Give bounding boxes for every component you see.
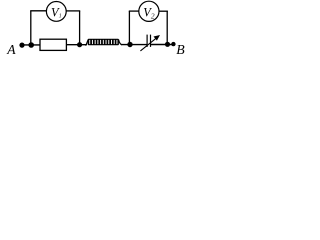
junction dot V1 left tap (28, 42, 34, 48)
svg-text:B: B (176, 42, 185, 57)
inductor L (tightly wound coil) (85, 39, 122, 46)
junction dot terminal A (19, 43, 24, 48)
svg-text:1: 1 (59, 13, 62, 20)
wire segment capacitor to B (151, 44, 174, 46)
capacitor C (variable, with arrow) (140, 35, 160, 51)
svg-text:A: A (6, 42, 16, 57)
wire V2 top right horizontal (159, 10, 168, 12)
wire segment coil to capacitor (121, 44, 147, 46)
junction dot V1 right tap (77, 42, 82, 47)
wire V1 top right horizontal (66, 10, 80, 12)
wire V1 left vertical (30, 11, 32, 45)
voltmeter V1 (46, 2, 66, 22)
resistor R (box) (40, 39, 66, 50)
wire main left segment A to resistor (20, 44, 41, 46)
junction dot terminal B (171, 42, 175, 46)
wire V1 top left horizontal (30, 10, 47, 12)
voltmeter V2 (139, 1, 159, 21)
wire segment resistor to coil (67, 44, 88, 46)
wire V2 top left horizontal (129, 10, 139, 12)
junction dot V2 right tap (165, 42, 170, 47)
svg-text:2: 2 (151, 11, 155, 20)
wire V2 right vertical (166, 11, 168, 44)
wire V2 left vertical (128, 11, 130, 44)
junction dot V2 left tap (127, 42, 132, 47)
wire V1 right vertical (79, 11, 81, 45)
